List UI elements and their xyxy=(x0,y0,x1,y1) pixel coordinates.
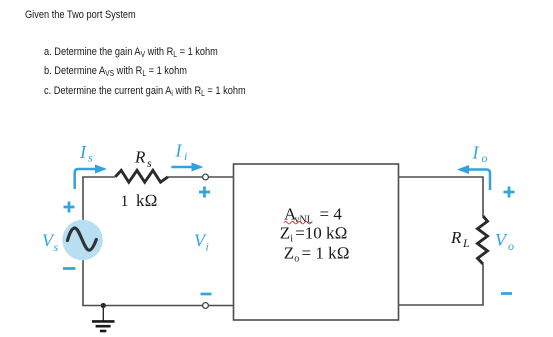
svg-text:i: i xyxy=(184,149,187,163)
svg-text:R: R xyxy=(450,228,462,247)
svg-text:o: o xyxy=(482,151,488,165)
svg-text:Z: Z xyxy=(280,224,290,243)
svg-text:=10 kΩ: =10 kΩ xyxy=(295,224,347,243)
svg-text:kΩ: kΩ xyxy=(136,191,158,210)
svg-text:i: i xyxy=(206,240,209,254)
svg-text:Z: Z xyxy=(284,244,294,263)
svg-text:I: I xyxy=(175,141,183,161)
svg-text:I: I xyxy=(472,143,480,163)
svg-text:I: I xyxy=(79,142,87,162)
svg-text:o: o xyxy=(508,239,514,253)
svg-text:= 1 kΩ: = 1 kΩ xyxy=(302,244,350,263)
svg-text:L: L xyxy=(462,236,470,250)
svg-text:s: s xyxy=(88,151,93,165)
svg-text:= 4: = 4 xyxy=(320,205,343,224)
svg-text:1: 1 xyxy=(121,193,129,210)
svg-text:V: V xyxy=(495,230,508,250)
svg-text:s: s xyxy=(54,240,59,254)
svg-text:o: o xyxy=(294,254,299,265)
svg-text:R: R xyxy=(134,148,146,167)
svg-text:s: s xyxy=(147,156,152,170)
